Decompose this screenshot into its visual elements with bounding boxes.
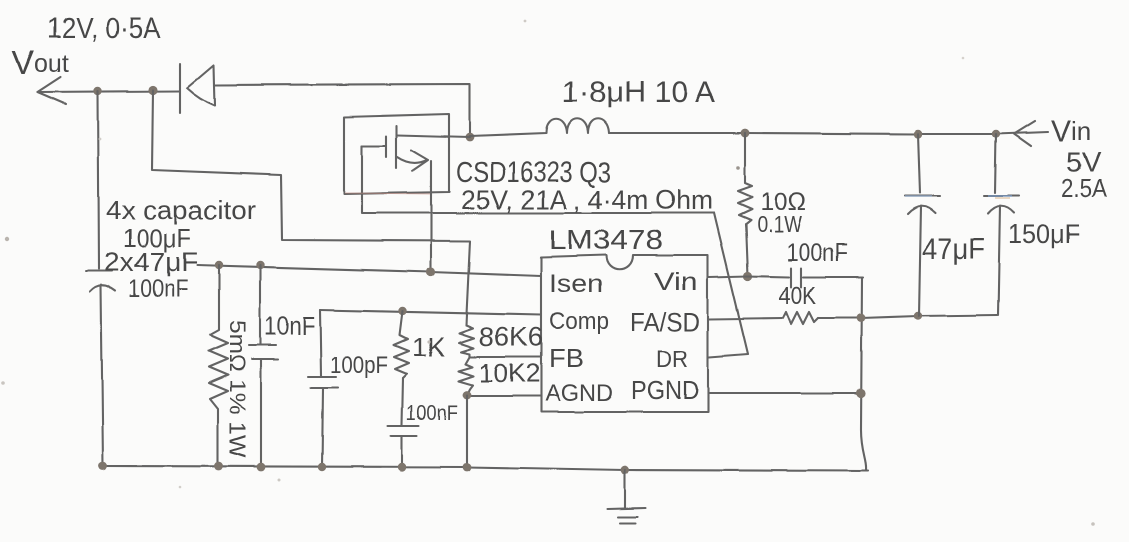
svg-text:100nF: 100nF — [406, 402, 458, 425]
wire ground rail — [103, 466, 868, 471]
diode D1 — [180, 64, 215, 113]
wire Comp line — [320, 310, 541, 315]
svg-text:AGND: AGND — [545, 380, 613, 407]
svg-text:40K: 40K — [779, 282, 816, 310]
wire 40K to cap bottoms — [818, 315, 997, 318]
junction Vout node — [94, 87, 102, 95]
wire Isen line from output caps — [197, 265, 541, 276]
wire gate diagonal to DR pin — [709, 213, 748, 357]
junction PGND/ground vertical — [856, 388, 865, 397]
junction 10nF top — [256, 261, 264, 269]
svg-text:47μF: 47μF — [922, 233, 985, 266]
capacitor 10nF — [249, 265, 278, 467]
svg-text:10K2: 10K2 — [479, 358, 540, 388]
svg-text:FB: FB — [549, 343, 584, 373]
wire FB pin — [470, 356, 541, 358]
capacitor 47uF — [905, 134, 940, 316]
resistor 10 ohm — [738, 133, 752, 276]
svg-text:Comp: Comp — [549, 308, 609, 335]
svg-text:0.1W: 0.1W — [757, 211, 802, 237]
resistor 86K6 — [459, 325, 474, 357]
svg-text:4x capacitor: 4x capacitor — [106, 195, 256, 225]
capacitor 100nF Vin bypass — [748, 268, 863, 287]
resistor 40K — [783, 312, 818, 324]
capacitor 100nF comp — [388, 378, 419, 467]
capacitor 150uF — [984, 134, 1019, 315]
wire AGND node to ground rail — [466, 395, 468, 467]
svg-text:100pF: 100pF — [330, 352, 388, 379]
wire right ground vertical — [861, 277, 866, 470]
svg-text:PGND: PGND — [631, 375, 699, 405]
wire Q3 drain to switch node — [397, 135, 470, 137]
wire inductor to Vin input — [609, 132, 1048, 134]
wire AGND pin — [467, 395, 541, 397]
svg-text:150μF: 150μF — [1008, 219, 1080, 249]
svg-text:86K6: 86K6 — [479, 322, 543, 352]
resistor 5mOhm sense — [209, 265, 228, 466]
junction 47uF top node — [914, 130, 922, 138]
svg-text:12V, 0·5A: 12V, 0·5A — [47, 13, 161, 45]
wire Vin pin — [709, 276, 748, 277]
node Vout output arrow — [38, 77, 66, 104]
inductor L1 1.8uH — [470, 119, 609, 136]
junction AGND node — [463, 391, 472, 400]
transistor Q3 MOSFET symbol — [362, 126, 428, 171]
wire feedback path Vout to divider — [152, 90, 470, 325]
junction 150uF top node — [992, 130, 1000, 138]
svg-text:100nF: 100nF — [786, 239, 848, 267]
svg-text:10nF: 10nF — [264, 311, 315, 341]
svg-text:1·8μH 10 A: 1·8μH 10 A — [562, 76, 715, 109]
wire diode anode to switch node corner — [215, 84, 470, 137]
svg-text:100nF: 100nF — [128, 275, 188, 303]
op-amp U1 LM3478 box — [541, 255, 708, 412]
svg-text:2.5A: 2.5A — [1061, 173, 1108, 203]
wire FA/SD pin — [709, 318, 783, 319]
junction sense resistor top — [215, 261, 223, 269]
svg-text:Vin: Vin — [654, 268, 698, 296]
node Vin input arrow — [1014, 121, 1035, 146]
junction 1K top — [399, 307, 407, 315]
svg-text:25V, 21A , 4·4m Ohm: 25V, 21A , 4·4m Ohm — [461, 185, 713, 215]
resistor 1K — [394, 311, 409, 378]
junction FA/SD ground node — [857, 314, 866, 323]
junction source/Isen — [426, 267, 435, 276]
ground — [607, 470, 646, 523]
junction feedback tap node — [148, 85, 157, 94]
junction 47uF bottom node — [914, 312, 922, 320]
svg-text:Vin: Vin — [1051, 115, 1091, 148]
junction switch node — [466, 133, 475, 142]
capacitor output bank (100uF / 2x47uF / 100nF) — [86, 271, 115, 466]
svg-text:5mΩ 1% 1W: 5mΩ 1% 1W — [225, 320, 250, 458]
svg-text:Isen: Isen — [549, 270, 603, 298]
svg-text:LM3478: LM3478 — [549, 224, 663, 255]
svg-text:DR: DR — [656, 346, 688, 373]
capacitor 100pF — [308, 310, 338, 467]
resistor 10K2 — [459, 357, 474, 395]
svg-text:2x47μF: 2x47μF — [104, 247, 198, 277]
wire Vout to diode cathode — [38, 91, 180, 92]
svg-text:Vout: Vout — [12, 44, 69, 81]
wire PGND pin — [708, 392, 861, 394]
wire Vout cap lead — [98, 91, 99, 269]
svg-text:1K: 1K — [412, 332, 445, 362]
transistor Q3 box — [344, 114, 449, 194]
wire Q3 source down to Isen line — [430, 161, 432, 272]
wire Q3 gate down and across to DR — [362, 146, 714, 213]
junction rail dots — [99, 462, 630, 475]
junction inductor/resistor node — [741, 129, 750, 138]
junction Vin pin node — [743, 271, 752, 280]
svg-text:FA/SD: FA/SD — [630, 307, 700, 337]
